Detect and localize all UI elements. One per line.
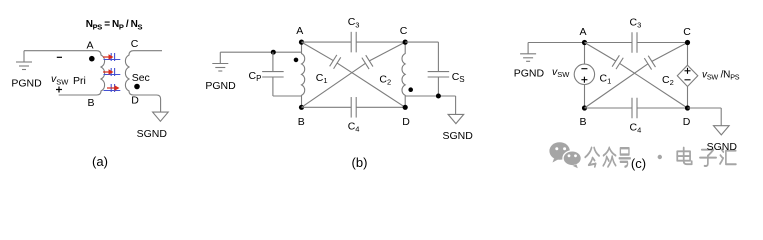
svg-text:B: B: [298, 116, 305, 128]
secondary polarity dot: [134, 84, 140, 90]
ground SGND (b): [448, 114, 464, 123]
junction dot Cs bottom: [436, 94, 441, 99]
svg-text:C: C: [131, 38, 139, 50]
polarity dot left winding (b): [294, 58, 299, 63]
parasitic cap arrow 3: [104, 90, 121, 92]
svg-text:(c): (c): [631, 156, 646, 171]
wire top rail C3 to C (b): [356, 41, 405, 43]
capacitor C4 (b): [350, 97, 352, 118]
wire D to SGND horizontal (c): [688, 107, 722, 109]
ground SGND (c): [714, 126, 730, 135]
svg-text:C: C: [683, 26, 691, 38]
wire Cp branch upper: [272, 52, 274, 71]
wire Cs branch lower: [437, 77, 439, 96]
capacitor C2 on diagonal B-C (b): [302, 63, 366, 107]
wire C to dependent source (c): [687, 43, 689, 66]
watermark wechat icon: [549, 142, 581, 168]
wire secondary bottom from D to SGND: [134, 95, 161, 112]
wire source to B (c): [584, 85, 586, 109]
svg-text:PGND: PGND: [205, 80, 236, 92]
label plus terminal: [56, 89, 62, 91]
svg-text:SGND: SGND: [137, 128, 168, 140]
wire down to SGND (b): [455, 96, 457, 114]
node C (c): [685, 40, 690, 45]
dependent source v_SW/N_PS diamond: [677, 65, 698, 86]
svg-text:SGND: SGND: [443, 130, 474, 142]
capacitor C3 (b): [350, 32, 352, 52]
wire SGND vertical (c): [720, 108, 722, 126]
svg-text:PGND: PGND: [514, 68, 545, 80]
svg-text:D: D: [131, 95, 139, 107]
node D (b): [403, 105, 408, 110]
node C (b): [403, 40, 408, 45]
wire top rail C3 to C (c): [637, 42, 688, 44]
wire bottom (a) open stub to B: [59, 94, 97, 96]
wire bottom rail C4 to D (b): [356, 106, 405, 108]
svg-text:C: C: [400, 25, 408, 37]
wire top rail A to C3 (c): [585, 42, 633, 44]
wire C to Cs branch (b): [405, 41, 438, 43]
capacitor C1 on diagonal A-D (b): [302, 42, 334, 60]
label minus terminal: [57, 56, 62, 58]
secondary winding (b right): [402, 42, 405, 107]
svg-text:D: D: [683, 116, 691, 128]
capacitor C_P: [262, 71, 284, 73]
transformer primary winding Pri: [97, 51, 105, 95]
wire A to source (c): [584, 43, 586, 65]
ground PGND (b): [219, 52, 221, 63]
watermark text 公众号·电子汇: [585, 148, 599, 167]
primary polarity dot: [89, 56, 95, 62]
ground PGND (a): [23, 51, 25, 62]
ground PGND (c): [527, 43, 529, 54]
svg-text:PGND: PGND: [11, 78, 42, 90]
wire top rail A to C3 (b): [302, 41, 352, 43]
svg-text:SGND: SGND: [707, 141, 738, 153]
ground SGND (a): [153, 112, 169, 121]
node A (b): [299, 40, 304, 45]
wire Cp branch lower: [272, 77, 274, 96]
transformer secondary winding Sec: [125, 51, 133, 95]
node A (c): [582, 40, 587, 45]
node B (b): [299, 105, 304, 110]
voltage source v_SW: [574, 64, 594, 84]
magnetizing inductance winding (b left): [302, 42, 305, 107]
node D (c): [685, 105, 690, 110]
parasitic cap arrow 1: [104, 59, 121, 61]
svg-text:B: B: [87, 97, 94, 109]
svg-text:(a): (a): [92, 154, 108, 169]
wire rail PGND to winding (b): [220, 51, 301, 53]
svg-text:Sec: Sec: [132, 72, 150, 84]
polarity dot right winding (b): [408, 87, 413, 92]
wire bottom rail C4 to D (c): [637, 107, 688, 109]
wire secondary top open stub from C: [134, 50, 163, 52]
wire dependent source to D (c): [687, 87, 689, 109]
wire rail PGND to A (c): [528, 42, 584, 44]
wire bottom rail B to C4 (c): [585, 107, 633, 109]
watermark middle dot: [658, 155, 662, 159]
capacitor C2 on diagonal B-C (c): [585, 64, 648, 108]
svg-text:Pri: Pri: [73, 75, 86, 87]
svg-text:D: D: [402, 116, 410, 128]
svg-text:A: A: [296, 25, 303, 37]
svg-text:A: A: [86, 39, 93, 51]
node B (c): [582, 105, 587, 110]
svg-text:B: B: [579, 116, 586, 128]
capacitor C1 on diagonal A-D (c): [585, 43, 616, 61]
svg-text:A: A: [579, 26, 586, 38]
capacitor C_S: [428, 71, 450, 73]
junction dot Cp branch: [271, 50, 276, 55]
wire top rail (a) from PGND to primary: [24, 50, 97, 52]
capacitor C4 (c): [631, 98, 633, 119]
wire bottom (b) winding to SGND: [405, 95, 455, 97]
capacitor C3 (c): [631, 32, 633, 53]
wire bottom rail B to C4 (b): [302, 106, 352, 108]
svg-text:(b): (b): [352, 155, 368, 170]
parasitic cap arrow 2: [104, 74, 121, 76]
wire Cp bottom to B branch: [273, 95, 302, 97]
